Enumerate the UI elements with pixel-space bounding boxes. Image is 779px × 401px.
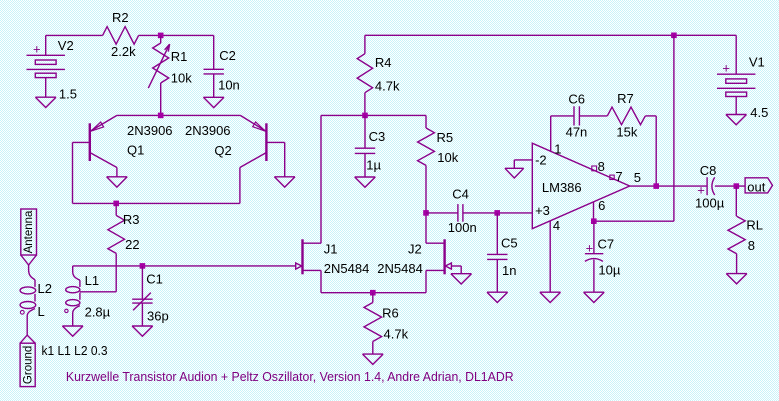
label Q1	[127, 143, 144, 158]
svg-text:4.7k: 4.7k	[384, 327, 409, 342]
wire	[364, 115, 366, 148]
label C2	[219, 48, 236, 63]
svg-text:RL: RL	[746, 218, 763, 233]
ground	[62, 326, 83, 336]
svg-text:7: 7	[615, 169, 622, 184]
svg-text:Q1: Q1	[127, 143, 144, 158]
pin 4	[553, 218, 560, 233]
ground	[274, 177, 295, 187]
label L1	[85, 273, 99, 288]
capacitor C2	[204, 69, 224, 74]
label R5	[437, 130, 454, 145]
value 4.5	[750, 105, 768, 120]
value 10k	[437, 150, 458, 165]
svg-text:15k: 15k	[616, 124, 637, 139]
ground	[584, 292, 605, 302]
wire	[213, 35, 215, 69]
svg-text:10µ: 10µ	[598, 263, 620, 278]
value 10n	[218, 78, 240, 93]
label C1	[146, 272, 163, 287]
svg-text:Kurzwelle Transistor Audion +: Kurzwelle Transistor Audion + Peltz Oszi…	[66, 370, 514, 384]
svg-text:R4: R4	[375, 55, 392, 70]
svg-text:4.7k: 4.7k	[375, 79, 400, 94]
resistor R4	[357, 35, 372, 115]
label R7	[617, 91, 634, 106]
svg-text:36p: 36p	[147, 308, 169, 323]
resistor RL	[728, 186, 745, 274]
svg-text:out: out	[747, 179, 765, 194]
battery V1 plus sign	[722, 60, 730, 75]
battery V1	[717, 74, 755, 96]
value 2.2k	[111, 44, 136, 59]
svg-text:1n: 1n	[502, 263, 516, 278]
ground	[726, 115, 747, 125]
value 1n	[502, 263, 516, 278]
svg-text:R6: R6	[382, 305, 399, 320]
label R2	[112, 10, 129, 25]
svg-text:2N3906: 2N3906	[185, 123, 231, 138]
label RL	[746, 218, 763, 233]
inductor L1	[65, 266, 80, 326]
label Q2	[214, 143, 231, 158]
svg-text:10k: 10k	[171, 71, 192, 86]
svg-text:4.5: 4.5	[750, 105, 768, 120]
value 8	[748, 238, 755, 253]
capacitor C8 plus sign	[697, 183, 705, 198]
value 4.7k	[375, 79, 400, 94]
wire	[73, 265, 296, 267]
label L2	[38, 281, 52, 296]
value 100u	[695, 195, 725, 210]
wire	[463, 212, 532, 214]
svg-text:LM386: LM386	[542, 180, 582, 195]
svg-text:2N5484: 2N5484	[377, 261, 423, 276]
transistor Q2	[240, 115, 285, 203]
value 1.5	[59, 87, 77, 102]
wire	[514, 160, 532, 168]
junction	[140, 263, 146, 269]
svg-text:C8: C8	[700, 163, 717, 178]
svg-text:2N3906: 2N3906	[127, 123, 173, 138]
junction	[423, 210, 429, 216]
node L	[38, 304, 45, 319]
label V2	[58, 38, 74, 53]
svg-text:C4: C4	[452, 186, 469, 201]
svg-text:1.5: 1.5	[59, 87, 77, 102]
label Ground	[23, 346, 35, 384]
svg-text:C3: C3	[369, 129, 386, 144]
inductor L2	[20, 270, 36, 336]
value 4.7k R6	[384, 327, 409, 342]
label C5	[501, 235, 518, 250]
svg-text:4: 4	[553, 218, 560, 233]
label 2N3906 Q1	[127, 123, 173, 138]
svg-text:-2: -2	[535, 153, 547, 168]
wire	[551, 116, 574, 151]
ground	[132, 326, 153, 336]
capacitor C7 plus sign	[586, 240, 594, 255]
ground	[363, 354, 384, 364]
svg-text:6: 6	[598, 198, 605, 213]
label V1	[749, 54, 765, 69]
svg-text:R5: R5	[437, 130, 454, 145]
svg-text:10n: 10n	[218, 78, 240, 93]
ground	[540, 292, 561, 302]
pin 1	[554, 141, 561, 156]
svg-text:L2: L2	[38, 281, 52, 296]
wire	[594, 35, 674, 221]
capacitor C1	[132, 293, 152, 311]
value 36p	[147, 308, 169, 323]
capacitor C4	[458, 204, 463, 222]
resistor R7	[607, 107, 645, 125]
svg-text:R3: R3	[123, 212, 140, 227]
pin 7	[615, 169, 622, 184]
svg-text:Q2: Q2	[214, 143, 231, 158]
pin 6	[598, 198, 605, 213]
value 22	[125, 237, 139, 252]
svg-text:2.2k: 2.2k	[111, 44, 136, 59]
resistor R3	[108, 203, 125, 291]
label R1	[171, 49, 188, 64]
junction	[671, 33, 677, 39]
ground	[487, 292, 508, 302]
wire	[426, 212, 458, 214]
svg-text:+: +	[586, 240, 594, 255]
wire	[645, 116, 656, 186]
svg-text:8: 8	[748, 238, 755, 253]
value 10k	[171, 71, 192, 86]
capacitor C8	[707, 177, 715, 195]
value 10u	[598, 263, 620, 278]
wire	[117, 114, 240, 116]
svg-text:Ground: Ground	[23, 346, 35, 384]
svg-text:22: 22	[125, 237, 139, 252]
svg-text:V1: V1	[749, 54, 765, 69]
junction	[653, 183, 659, 189]
wire	[549, 221, 551, 292]
svg-text:J2: J2	[408, 242, 422, 257]
caption	[66, 370, 514, 384]
battery V2 plus sign	[33, 42, 41, 57]
ground	[203, 97, 224, 107]
svg-text:1: 1	[554, 141, 561, 156]
svg-text:C1: C1	[146, 272, 163, 287]
svg-text:+: +	[722, 60, 730, 75]
svg-text:R7: R7	[617, 91, 634, 106]
pin -2	[535, 153, 547, 168]
svg-text:k1 L1 L2 0.3: k1 L1 L2 0.3	[42, 343, 108, 358]
ground	[451, 274, 472, 284]
svg-text:100µ: 100µ	[695, 195, 725, 210]
svg-text:R2: R2	[112, 10, 129, 25]
pin 8 stub	[592, 166, 597, 171]
label out	[747, 179, 765, 194]
label Antenna	[23, 210, 35, 253]
svg-text:C6: C6	[568, 92, 585, 107]
svg-text:V2: V2	[58, 38, 74, 53]
junction	[734, 183, 740, 189]
wire	[579, 115, 607, 117]
junction	[158, 33, 164, 39]
svg-text:C2: C2	[219, 48, 236, 63]
ground	[505, 168, 524, 178]
pin 5	[634, 170, 641, 185]
wire	[73, 142, 240, 203]
wire	[139, 34, 214, 36]
ground	[726, 274, 747, 284]
resistor R2	[103, 27, 139, 45]
svg-text:Antenna: Antenna	[23, 210, 35, 253]
label C4	[452, 186, 469, 201]
wire	[141, 303, 143, 326]
label C7	[598, 236, 615, 251]
label R3	[123, 212, 140, 227]
svg-text:5: 5	[634, 170, 641, 185]
label 2N3906 Q2	[185, 123, 231, 138]
svg-text:L1: L1	[85, 273, 99, 288]
svg-text:47n: 47n	[566, 124, 588, 139]
wire	[496, 259, 498, 292]
svg-text:2.8µ: 2.8µ	[85, 304, 111, 319]
junction	[113, 201, 119, 207]
wire	[80, 291, 116, 293]
pin 7 stub	[610, 175, 614, 179]
label C8	[700, 163, 717, 178]
svg-text:2N5484: 2N5484	[324, 261, 370, 276]
junction	[591, 218, 597, 224]
transistor Q1	[73, 115, 117, 176]
jfet J1	[296, 239, 321, 292]
label C3	[369, 129, 386, 144]
wire	[141, 266, 143, 299]
svg-text:C5: C5	[501, 235, 518, 250]
label LM386	[542, 180, 582, 195]
capacitor C6	[574, 106, 579, 125]
svg-text:C7: C7	[598, 236, 615, 251]
resistor R1	[148, 35, 169, 115]
label C6	[568, 92, 585, 107]
wire	[630, 185, 707, 187]
label 2N5484 J1	[324, 261, 370, 276]
wire	[365, 34, 736, 36]
wire	[321, 292, 426, 294]
ground	[107, 177, 128, 187]
value 100n	[448, 220, 477, 235]
value k1 L1 L2 0.3	[42, 343, 108, 358]
svg-text:L: L	[38, 304, 45, 319]
svg-text:+3: +3	[535, 203, 550, 218]
wire	[213, 74, 215, 97]
label R4	[375, 55, 392, 70]
svg-text:J1: J1	[324, 242, 338, 257]
svg-text:R1: R1	[171, 49, 188, 64]
value 15k	[616, 124, 637, 139]
jfet J2	[426, 239, 451, 292]
wire	[451, 266, 461, 274]
resistor R6	[364, 293, 382, 354]
svg-text:1µ: 1µ	[366, 158, 381, 173]
wire	[496, 213, 498, 255]
node Antenna	[21, 209, 37, 270]
ground	[355, 177, 376, 187]
svg-text:8: 8	[598, 159, 605, 174]
wire	[735, 96, 737, 114]
wire	[593, 260, 595, 293]
node Ground	[20, 335, 35, 387]
capacitor C3	[355, 148, 375, 153]
junction	[370, 290, 376, 296]
value 47n	[566, 124, 588, 139]
wire	[715, 185, 745, 187]
svg-text:10k: 10k	[437, 150, 458, 165]
wire	[364, 153, 366, 177]
node out	[745, 178, 772, 193]
label R6	[382, 305, 399, 320]
op-amp U1 LM386	[532, 143, 629, 229]
wire	[593, 221, 595, 254]
wire	[46, 35, 103, 55]
battery V2	[27, 55, 65, 77]
junction	[494, 210, 500, 216]
capacitor C5	[487, 254, 507, 259]
label J2	[408, 242, 422, 257]
svg-text:+: +	[33, 42, 41, 57]
label J1	[324, 242, 338, 257]
value 1u	[366, 158, 381, 173]
pin 8	[598, 159, 605, 174]
resistor R5	[418, 128, 435, 165]
value 2.8u	[85, 304, 111, 319]
wire	[425, 165, 427, 243]
junction	[158, 113, 164, 119]
ground	[35, 97, 56, 107]
pin +3	[535, 203, 550, 218]
wire	[321, 115, 426, 243]
wire	[45, 78, 47, 97]
wire	[735, 35, 737, 74]
capacitor C7	[585, 254, 603, 262]
junction	[362, 113, 368, 119]
svg-text:100n: 100n	[448, 220, 477, 235]
label 2N5484 J2	[377, 261, 423, 276]
